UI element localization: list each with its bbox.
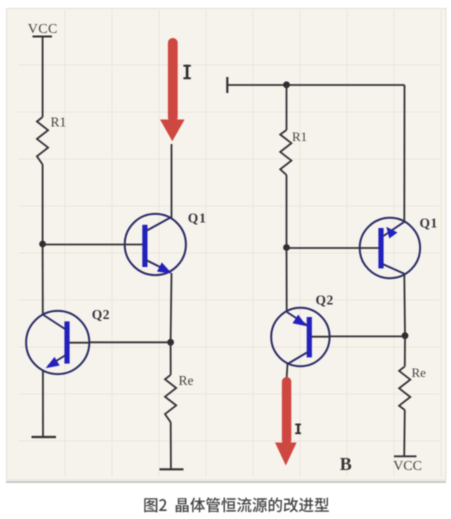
wire node E to Re bbox=[404, 336, 406, 367]
wire Re to ground terminal bbox=[170, 422, 172, 469]
wire node D to Q1 base bbox=[287, 247, 361, 249]
svg-text:Q2: Q2 bbox=[316, 293, 334, 308]
svg-text:B: B bbox=[340, 454, 352, 474]
wire node D down to Q2 emitter bbox=[286, 248, 288, 313]
wire Re to VCC terminal bbox=[403, 410, 406, 456]
wire VCC to R1 bbox=[42, 37, 44, 118]
wire Q2 emitter down bbox=[42, 371, 44, 437]
wire rail down to Q1 emitter bbox=[403, 85, 405, 222]
svg-text:VCC: VCC bbox=[28, 22, 58, 37]
supply terminal tick bbox=[226, 77, 228, 93]
wire rail to R1 bbox=[286, 85, 288, 130]
wire Q2 collector down bbox=[286, 364, 289, 380]
wire node B to Re bbox=[170, 342, 172, 375]
VCC terminal bar (bottom right) bbox=[394, 455, 417, 457]
svg-text:Q1: Q1 bbox=[420, 216, 438, 231]
node A junction dot bbox=[39, 241, 46, 248]
wire R1 to node D bbox=[286, 175, 288, 248]
red current arrow I (right) bbox=[275, 377, 297, 466]
svg-text:R1: R1 bbox=[292, 129, 307, 144]
wire Q1 collector down to node E bbox=[403, 274, 406, 336]
wire Q1 emitter down to node B bbox=[170, 273, 173, 342]
ground terminal bar (left Re) bbox=[160, 468, 184, 470]
transistor Q2 (right, PNP) bbox=[271, 308, 329, 366]
svg-text:Re: Re bbox=[412, 365, 427, 380]
node C junction dot bbox=[283, 81, 290, 88]
top rail wire bbox=[227, 84, 404, 86]
svg-text:VCC: VCC bbox=[393, 459, 422, 474]
resistor R1 (right) bbox=[280, 130, 291, 175]
node B junction dot bbox=[167, 339, 174, 346]
transistor Q1 (right, PNP) bbox=[360, 218, 420, 278]
transistor Q2 (left, PNP) bbox=[26, 311, 89, 374]
resistor Re (right) bbox=[399, 366, 410, 410]
caption: 图2 晶体管恒流源的改进型 bbox=[144, 497, 329, 512]
transistor Q1 (left, NPN) bbox=[125, 214, 186, 275]
I label (right) bbox=[295, 424, 301, 435]
VCC rail bar bbox=[33, 36, 53, 38]
wire Q1 collector up bbox=[171, 144, 173, 218]
wire Q2 base to node E bbox=[330, 335, 406, 337]
wire node A to Q1 base bbox=[43, 244, 125, 246]
photo bottom shadow edge bbox=[6, 481, 446, 483]
wire node A down to Q2 collector bbox=[42, 244, 44, 314]
svg-text:Q2: Q2 bbox=[92, 307, 110, 322]
wire R1 to node A bbox=[42, 165, 44, 245]
svg-text:R1: R1 bbox=[51, 115, 67, 130]
red current arrow I (left) bbox=[160, 38, 185, 141]
I label (left) bbox=[183, 65, 190, 79]
svg-text:Q1: Q1 bbox=[188, 211, 207, 226]
resistor Re (left) bbox=[165, 375, 176, 423]
node E junction dot bbox=[402, 332, 409, 339]
node D junction dot bbox=[283, 244, 290, 251]
resistor R1 (left) bbox=[37, 117, 48, 165]
svg-text:Re: Re bbox=[179, 373, 194, 388]
wire Q2 base to node B bbox=[89, 341, 171, 343]
ground (left) bbox=[32, 436, 57, 438]
